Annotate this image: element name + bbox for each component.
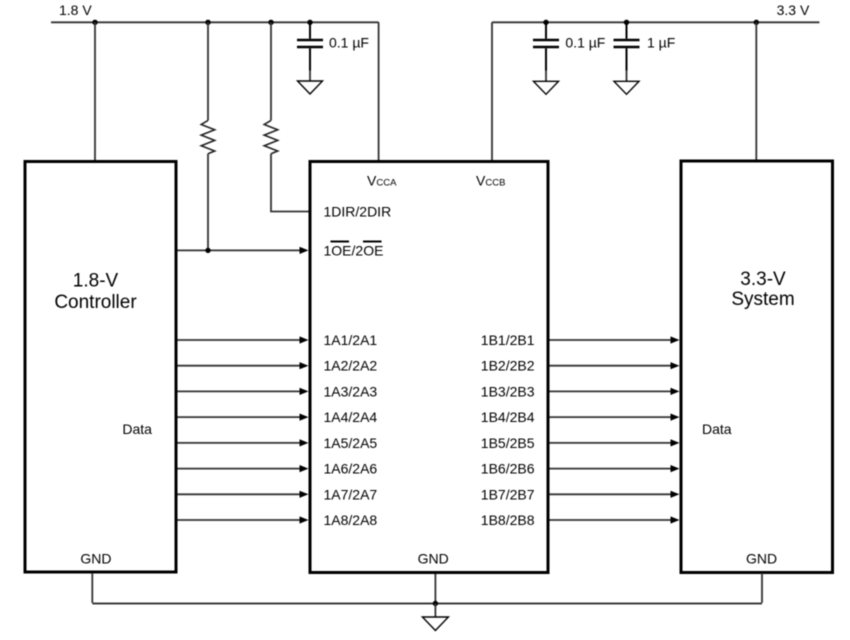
block level translator U1 xyxy=(310,162,548,573)
wire ground rail to ground symbol xyxy=(434,604,436,618)
capacitor C1 plates xyxy=(297,40,323,47)
label GND (system) xyxy=(746,551,777,567)
junction dot rail-to-C2 xyxy=(543,20,548,25)
svg-text:1 µF: 1 µF xyxy=(647,35,675,51)
wire 1.8-V rail xyxy=(51,21,379,23)
svg-text:1A4/2A4: 1A4/2A4 xyxy=(324,409,378,425)
wire rail to capacitor C1 xyxy=(309,22,311,38)
svg-text:0.1 µF: 0.1 µF xyxy=(329,35,369,51)
pin label 1B6/2B6 xyxy=(481,461,535,477)
resistor R1 (pull on OE line) xyxy=(201,120,215,153)
svg-text:1B2/2B2: 1B2/2B2 xyxy=(481,358,535,374)
pin label 1A2/2A2 xyxy=(324,358,378,374)
pin label 1B1/2B1 xyxy=(481,332,535,348)
wire capacitor C2 to ground xyxy=(545,48,547,81)
svg-text:3.3-V: 3.3-V xyxy=(740,269,786,290)
junction dot OE-to-R1 xyxy=(205,248,210,253)
pin label VCCB xyxy=(476,172,505,188)
capacitor C3 plates xyxy=(614,40,640,47)
junction dot rail-to-R1 xyxy=(205,20,210,25)
svg-text:1A8/2A8: 1A8/2A8 xyxy=(324,512,378,528)
label Data (system) xyxy=(702,421,732,437)
svg-text:1OE/2OE: 1OE/2OE xyxy=(324,242,384,258)
net label 1.8 V xyxy=(59,2,92,18)
wire 1B8/2B8 xyxy=(550,516,680,523)
wire resistor R1 to OE node xyxy=(207,154,209,251)
wire 1B4/2B4 xyxy=(550,414,680,421)
pin label 1A4/2A4 xyxy=(324,409,378,425)
pin label 1DIR/2DIR xyxy=(324,204,392,220)
wire 1B6/2B6 xyxy=(550,465,680,472)
wire controller GND to ground rail xyxy=(91,573,93,603)
junction dot rail-to-controller xyxy=(92,20,97,25)
wire 3.3-V rail xyxy=(492,21,819,23)
pin label 1A1/2A1 xyxy=(324,332,378,348)
svg-text:1.8 V: 1.8 V xyxy=(59,2,92,18)
wire ground rail xyxy=(92,603,762,605)
junction dot rail-to-R2 xyxy=(268,20,273,25)
resistor R2 (pull on DIR line) xyxy=(264,120,278,153)
pin label 1B8/2B8 xyxy=(481,512,535,528)
pin label 1A3/2A3 xyxy=(324,383,378,399)
wire 1A6/2A6 xyxy=(178,465,309,472)
svg-text:1B8/2B8: 1B8/2B8 xyxy=(481,512,535,528)
wire 1A7/2A7 xyxy=(178,491,309,498)
label 1.8-V Controller xyxy=(54,271,137,314)
svg-text:VCCA: VCCA xyxy=(367,172,397,188)
wire translator GND to ground rail xyxy=(434,574,436,604)
pin label 1OE/2OE with overbars xyxy=(324,242,384,259)
wire resistor R2 to DIR pin xyxy=(271,154,309,212)
svg-text:1A5/2A5: 1A5/2A5 xyxy=(324,435,378,451)
ground symbol (main) xyxy=(422,617,448,631)
wire rail to resistor R2 xyxy=(270,22,272,120)
svg-text:Data: Data xyxy=(702,421,732,437)
label Data (controller) xyxy=(122,421,152,437)
wire 1A3/2A3 xyxy=(178,388,309,395)
svg-text:GND: GND xyxy=(80,551,111,567)
block 1.8-V Controller xyxy=(25,162,176,573)
pin label 1B7/2B7 xyxy=(481,486,535,502)
pin label 1A5/2A5 xyxy=(324,435,378,451)
svg-text:Controller: Controller xyxy=(54,292,137,313)
wire rail to capacitor C3 xyxy=(626,22,628,38)
svg-text:1B5/2B5: 1B5/2B5 xyxy=(481,435,535,451)
wire rail to capacitor C2 xyxy=(545,22,547,38)
wire rail to 3.3-V system top xyxy=(755,22,757,159)
junction dot rail-to-system xyxy=(754,20,759,25)
ground symbol under C1 xyxy=(298,81,323,94)
pin label 1B4/2B4 xyxy=(481,409,535,425)
svg-text:1A1/2A1: 1A1/2A1 xyxy=(324,332,378,348)
net label 3.3 V xyxy=(777,2,810,18)
capacitor C2 plates xyxy=(533,40,559,47)
pin label 1B5/2B5 xyxy=(481,435,535,451)
svg-text:1A7/2A7: 1A7/2A7 xyxy=(324,486,378,502)
wire 1A2/2A2 xyxy=(178,362,309,369)
wire 1A4/2A4 xyxy=(178,414,309,421)
junction dot ground rail xyxy=(433,601,438,606)
wire rail to 1.8-V controller top xyxy=(94,22,96,160)
ground symbol under C3 xyxy=(614,81,639,94)
wire 1B5/2B5 xyxy=(550,439,680,446)
svg-text:GND: GND xyxy=(418,551,449,567)
wire system GND to ground rail xyxy=(761,573,763,603)
svg-text:3.3 V: 3.3 V xyxy=(777,2,810,18)
svg-text:1A2/2A2: 1A2/2A2 xyxy=(324,358,378,374)
wire 1A8/2A8 xyxy=(178,516,309,523)
svg-text:System: System xyxy=(731,289,794,310)
pin label 1B3/2B3 xyxy=(481,383,535,399)
wire capacitor C1 to ground xyxy=(309,48,311,81)
junction dot rail-to-C1 xyxy=(307,20,312,25)
wire 1A5/2A5 xyxy=(178,439,309,446)
svg-text:0.1 µF: 0.1 µF xyxy=(565,35,605,51)
wire 1B1/2B1 xyxy=(550,336,680,343)
label GND (translator) xyxy=(418,551,449,567)
wire 1A1/2A1 xyxy=(178,336,309,343)
value label C2 0.1 uF xyxy=(565,35,605,51)
svg-text:1B6/2B6: 1B6/2B6 xyxy=(481,461,535,477)
wire 1B7/2B7 xyxy=(550,491,680,498)
svg-text:1DIR/2DIR: 1DIR/2DIR xyxy=(324,204,392,220)
wire capacitor C3 to ground xyxy=(626,48,628,81)
value label C1 0.1 uF xyxy=(329,35,369,51)
svg-text:1A3/2A3: 1A3/2A3 xyxy=(324,383,378,399)
svg-text:1.8-V: 1.8-V xyxy=(73,271,119,292)
svg-text:GND: GND xyxy=(746,551,777,567)
label 3.3-V System xyxy=(731,269,794,310)
block 3.3-V System xyxy=(681,161,833,573)
pin label 1A8/2A8 xyxy=(324,512,378,528)
junction dot rail-to-C3 xyxy=(624,20,629,25)
ground symbol under C2 xyxy=(534,81,559,94)
wire rail to resistor R1 xyxy=(207,22,209,120)
pin label VCCA xyxy=(367,172,397,188)
label GND (controller) xyxy=(80,551,111,567)
wire 1.8-V rail down to VCCA pin xyxy=(378,22,380,160)
svg-text:1A6/2A6: 1A6/2A6 xyxy=(324,461,378,477)
svg-text:1B3/2B3: 1B3/2B3 xyxy=(481,383,535,399)
svg-text:1B1/2B1: 1B1/2B1 xyxy=(481,332,535,348)
pin label 1A7/2A7 xyxy=(324,486,378,502)
wire 1B3/2B3 xyxy=(550,388,680,395)
svg-text:Data: Data xyxy=(122,421,152,437)
svg-text:1B7/2B7: 1B7/2B7 xyxy=(481,486,535,502)
pin label 1B2/2B2 xyxy=(481,358,535,374)
wire 1B2/2B2 xyxy=(550,362,680,369)
pin label 1A6/2A6 xyxy=(324,461,378,477)
svg-text:VCCB: VCCB xyxy=(476,172,505,188)
value label C3 1 uF xyxy=(647,35,675,51)
svg-text:1B4/2B4: 1B4/2B4 xyxy=(481,409,535,425)
wire OE from controller xyxy=(178,249,301,251)
wire 3.3-V rail down to VCCB pin xyxy=(491,22,493,160)
arrowhead OE into translator xyxy=(300,247,309,254)
